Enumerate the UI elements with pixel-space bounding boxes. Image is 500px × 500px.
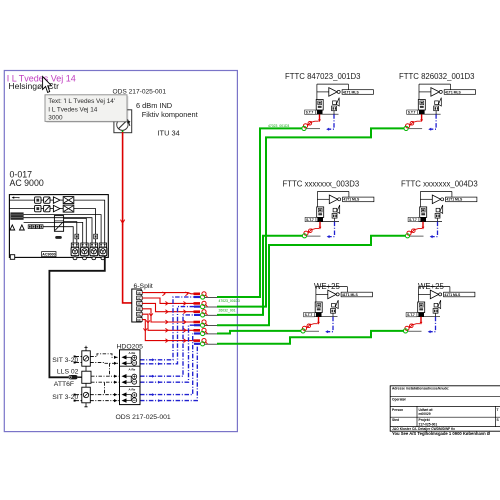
node ring pair 6: [201, 339, 207, 346]
node ring pair 4: [201, 320, 207, 327]
svg-text:SIT 3-20: SIT 3-20: [52, 394, 78, 401]
central return module: [54, 216, 63, 232]
row2 lead wire: [9, 208, 34, 210]
svg-text:FTTC xxxxxxx_004D3: FTTC xxxxxxx_004D3: [401, 180, 478, 189]
black cable stub node 2: [205, 306, 220, 308]
wire red port 4 to node 4: [142, 309, 200, 322]
row1 diplex filter: [60, 199, 63, 201]
svg-text:3000: 3000: [48, 115, 63, 122]
svg-text:47023_001D3: 47023_001D3: [268, 124, 289, 128]
svg-text:217-025-001: 217-025-001: [419, 423, 438, 427]
splitter port 5: [137, 312, 143, 316]
svg-text:ODS 217-025-001: ODS 217-025-001: [116, 414, 171, 421]
svg-text:A-Rø: A-Rø: [129, 367, 136, 371]
HDO205 section 2: [122, 367, 137, 384]
node ring pair 5: [201, 328, 207, 335]
green fiber wire G6 node6 to WE+25 no2: [217, 331, 404, 344]
svg-text:Text: 'I L Tvedes Vej 14': Text: 'I L Tvedes Vej 14': [48, 98, 115, 105]
row2 amp triangle: [50, 208, 53, 210]
test point square B: [94, 234, 98, 239]
wire red port 1 to node 1: [142, 293, 200, 294]
svg-text:Operatør: Operatør: [392, 398, 407, 402]
svg-text:Sted: Sted: [392, 418, 399, 422]
green fiber wire G1 node1 to FTTC 847023_001D3: [217, 128, 302, 297]
internal wire L2 to Y3: [24, 218, 92, 243]
svg-text:Projekt: Projekt: [419, 418, 431, 422]
left stub wires at SIT2: [76, 395, 82, 401]
tooltip shadow: [46, 96, 128, 123]
green fiber wire G3 node3 to FTTC xxxxxxx_003D3: [217, 236, 302, 315]
fiktiv komponent ITU 34 box: [114, 110, 132, 133]
svg-text:A-Rø: A-Rø: [129, 388, 136, 392]
blue return wire B4 HDO205 to node4: [140, 325, 195, 382]
svg-text:47023_001D3: 47023_001D3: [219, 299, 240, 303]
black cable stub node 3: [205, 314, 220, 316]
svg-text:FTTC xxxxxxx_003D3: FTTC xxxxxxx_003D3: [283, 180, 360, 189]
svg-text:SIT 3-20: SIT 3-20: [52, 357, 78, 364]
black return link wires SIT to HDO: [90, 354, 119, 358]
svg-text:AC9000: AC9000: [42, 253, 55, 257]
svg-text:m00029: m00029: [419, 412, 431, 416]
internal wire dip to Y1: [43, 227, 73, 243]
splitter port 6: [137, 318, 143, 322]
HDO205 section 1: [122, 351, 137, 366]
amplifier station AC9000 box: [9, 195, 108, 258]
ground triangle 1: [10, 225, 15, 230]
row2 diplex filter: [60, 208, 63, 210]
FTTC unit 847023_001D3: [302, 84, 374, 131]
ground triangle 2: [20, 225, 25, 230]
black cable stub node 1: [205, 296, 220, 298]
svg-text:2C: 2C: [137, 296, 141, 300]
black cable stub node 6: [205, 343, 220, 345]
output connector Y3: [90, 243, 98, 260]
splitter port 2: [137, 296, 143, 300]
svg-text:Person: Person: [392, 408, 403, 412]
node ring pair 1: [201, 292, 207, 299]
FTTC unit xxxxxxx_003D3: [302, 192, 374, 239]
blue arrows near HDO: [152, 358, 155, 361]
WE+25 unit 2: [403, 287, 475, 334]
wire red port 5 to node 5: [142, 314, 200, 330]
svg-text:5C: 5C: [137, 313, 141, 317]
black cable stub node 4: [205, 325, 220, 327]
blue return wire B3 HDO205 to node3: [140, 315, 195, 376]
svg-text:WE+25: WE+25: [418, 282, 444, 291]
SIT chain vertical line: [84, 346, 87, 407]
internal wire return to Y1 via square A: [64, 222, 77, 243]
internal wire row2 to Y3: [74, 209, 96, 243]
wire red port 6 to node 6: [142, 320, 200, 341]
mouse cursor: [43, 77, 52, 93]
corner fixing square: [10, 255, 14, 260]
output connector Y4: [99, 243, 107, 260]
blue return wire B1 HDO205 to node1: [140, 297, 195, 360]
blue return wire B6 HDO205 to node6: [140, 344, 197, 401]
output connector Y1: [71, 243, 79, 260]
FTTC unit 826032_001D3: [404, 84, 476, 131]
green fiber wire G2 node2 to FTTC 826032_001D3: [217, 128, 404, 306]
svg-text:Udført af:: Udført af:: [419, 408, 434, 412]
svg-text:6C: 6C: [137, 318, 141, 322]
SIT 3-20 lower component: [82, 387, 91, 403]
WE+25 unit 1: [301, 287, 373, 334]
title block: [390, 386, 500, 436]
black cable stub node 5: [205, 333, 220, 335]
row1 lead wire: [9, 199, 34, 201]
row1 eq module: [41, 199, 44, 201]
internal wire L1 to Y4: [24, 215, 102, 243]
output connector Y2: [81, 243, 89, 260]
svg-text:FTTC 847023_001D3: FTTC 847023_001D3: [285, 72, 360, 81]
barcode id label: [42, 252, 56, 257]
red wire end stubs and arrows: [194, 292, 201, 295]
red feeder wire ITU to splitter: [123, 132, 132, 303]
green fiber wire G5 node5 to WE+25 no1: [217, 331, 301, 334]
node ring pair 2: [201, 301, 207, 308]
dip switch block: [28, 225, 43, 229]
internal wire row1 to Y4: [74, 200, 105, 243]
svg-text:6 dBm IND: 6 dBm IND: [136, 101, 172, 110]
svg-text:3C: 3C: [137, 302, 141, 306]
corner input glyph: [12, 196, 20, 198]
svg-text:AC 9000: AC 9000: [10, 178, 44, 188]
arrow on feeder wire: [121, 220, 125, 224]
blue return wire B5 HDO205 to node5: [140, 334, 193, 395]
row1 amp triangle: [50, 199, 53, 201]
HDO205 return combiner box: [120, 350, 141, 405]
ATT6F attenuator: [68, 375, 77, 379]
row1 pad module: [35, 197, 41, 203]
SIT 3-20 upper component: [82, 351, 91, 366]
LLS 02 component: [82, 371, 91, 383]
splitter port 3: [137, 302, 143, 306]
HDO205 section 3: [122, 388, 137, 403]
svg-text:You See A/S Teglholmsgade 1 09: You See A/S Teglholmsgade 1 0900 Københa…: [392, 431, 491, 436]
svg-text:WE+25: WE+25: [314, 282, 340, 291]
black arrowheads into HDO: [114, 356, 117, 359]
power block: [10, 212, 23, 219]
svg-text:FTTC 826032_001D3: FTTC 826032_001D3: [399, 72, 474, 81]
test point square A: [75, 234, 79, 239]
row2 eq module: [41, 208, 44, 210]
splitter port 1: [137, 291, 143, 295]
FTTC unit xxxxxxx_004D3: [405, 192, 477, 239]
svg-text:26032_001: 26032_001: [219, 308, 236, 312]
internal wire L3 to Y2: [24, 222, 83, 243]
svg-text:I L Tvedes Vej 14: I L Tvedes Vej 14: [48, 106, 97, 113]
internal wire return to Y2: [64, 218, 87, 243]
area boundary box (purple): [4, 71, 237, 432]
row2 pad module: [35, 205, 41, 211]
svg-text:ITU 34: ITU 34: [158, 129, 180, 138]
splitter 6-Split: [132, 289, 141, 322]
svg-text:Fiktiv komponent: Fiktiv komponent: [142, 110, 198, 119]
svg-text:T: T: [497, 408, 499, 412]
svg-text:Adresse installationsadresse/k: Adresse installationsadresse/knude:: [392, 387, 449, 391]
id pill: [55, 236, 62, 239]
blue return wire B2 HDO205 to node2: [140, 307, 195, 364]
wire red port 3 to node 3: [142, 303, 200, 311]
svg-text:1C: 1C: [137, 291, 141, 295]
left stub wires at SIT1: [76, 357, 82, 363]
wire red port 2 to node 2: [142, 298, 200, 303]
red node diagonal stubs: [205, 295, 207, 298]
splitter port 4: [137, 307, 143, 311]
svg-text:A-Rø: A-Rø: [129, 351, 136, 355]
blue return stubs at nodes: [194, 296, 200, 298]
svg-text:4C: 4C: [137, 307, 141, 311]
node ring pair 3: [201, 310, 207, 317]
tooltip box: [45, 95, 127, 122]
crossing jumper wires: [109, 363, 111, 376]
svg-text:LLS 02: LLS 02: [57, 369, 79, 376]
svg-text:ATT6F: ATT6F: [54, 381, 74, 388]
main coax cable (black): [49, 256, 104, 377]
green fiber wire G4 node4 to FTTC xxxxxxx_004D3: [217, 236, 405, 325]
